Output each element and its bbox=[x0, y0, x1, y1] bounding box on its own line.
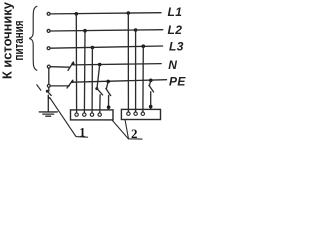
terminal circle L3 bbox=[47, 47, 50, 50]
node PE/box1 drop bbox=[106, 80, 110, 84]
svg-text:1: 1 bbox=[79, 126, 85, 140]
wire L1 drop to box1 bbox=[75, 14, 77, 113]
wire bus L3 bbox=[51, 46, 163, 48]
wire L1 drop to box2 bbox=[127, 13, 129, 112]
hinge node of N-drop blade bbox=[95, 87, 98, 90]
wire PEN-PE vertical link bbox=[48, 69, 50, 84]
wire PE drop to box2 (upper) bbox=[149, 80, 151, 86]
leader line 2a from box1 bbox=[112, 120, 142, 139]
terminal circle PEN bbox=[47, 65, 50, 68]
terminal in box2 t2 bbox=[134, 112, 137, 115]
svg-text:питания: питания bbox=[11, 21, 26, 61]
wire L3 drop to box1 bbox=[91, 48, 93, 113]
equipment box 1 (load enclosure) bbox=[71, 110, 114, 120]
brace grouping incoming supply wires bbox=[29, 6, 37, 70]
node L1/box1 drop bbox=[75, 12, 79, 16]
svg-text:L2: L2 bbox=[168, 23, 183, 37]
terminal circle L1 bbox=[47, 12, 50, 15]
switch blade on N conductor bbox=[68, 62, 74, 71]
node L3/box2 drop bbox=[142, 44, 146, 48]
wire N drop to box1 (upper) bbox=[97, 65, 100, 89]
node PE at box1 enclosure bbox=[107, 105, 111, 109]
wire L2 drop to box2 bbox=[135, 30, 137, 112]
node PE/box2 drop bbox=[149, 79, 153, 83]
node N/box1 drop bbox=[98, 63, 102, 67]
leader line 2b from box2 bbox=[125, 120, 129, 139]
terminal in box1 t3 bbox=[90, 113, 93, 116]
switch blade on earthing conductor bbox=[47, 91, 52, 96]
arrowhead of leader 1 bbox=[47, 96, 51, 100]
terminal in box2 t3 bbox=[141, 112, 144, 115]
wire bus PE bbox=[73, 80, 167, 83]
node L3/box1 drop bbox=[91, 46, 95, 50]
terminal in box1 t1 bbox=[75, 113, 78, 116]
svg-text:L3: L3 bbox=[169, 40, 184, 54]
hinge node of N blade bbox=[72, 62, 75, 65]
wire PE drop to box2 (lower) bbox=[150, 92, 152, 110]
node L1/box2 drop bbox=[127, 11, 131, 15]
ground electrode bar 1 bbox=[39, 111, 57, 113]
wire bus L1 bbox=[51, 13, 161, 14]
wire PE drop to box1 (lower) bbox=[108, 95, 110, 110]
terminal in box1 t4 bbox=[98, 113, 101, 116]
stray stroke near PE tap bbox=[37, 85, 41, 90]
terminal in box1 t2 bbox=[83, 113, 86, 116]
wire earthing conductor (lower) bbox=[47, 95, 49, 112]
wire PE stub bbox=[51, 85, 70, 87]
wire bus N bbox=[73, 64, 161, 65]
svg-text:N: N bbox=[168, 58, 177, 72]
switch blade on PE drop to box1 bbox=[106, 88, 111, 95]
leader line to label 1 (earthing electrode) bbox=[50, 98, 88, 138]
node PE at box2 enclosure bbox=[149, 105, 153, 109]
switch blade on PE conductor bbox=[67, 80, 73, 88]
wire PEN stub bbox=[51, 66, 70, 69]
switch blade on PE drop to box2 bbox=[149, 85, 154, 92]
terminal circle L2 bbox=[47, 29, 50, 32]
node L2/box1 drop bbox=[83, 29, 87, 33]
node L2/box2 drop bbox=[134, 28, 138, 32]
wire earthing conductor (upper) bbox=[48, 88, 50, 91]
wire PE drop to box1 (upper) bbox=[106, 81, 108, 89]
hinge node of earthing blade bbox=[46, 90, 49, 93]
svg-text:PE: PE bbox=[169, 75, 186, 89]
equipment box 2 (load enclosure) bbox=[121, 109, 160, 119]
svg-text:L1: L1 bbox=[168, 5, 183, 19]
ground electrode bar 2 bbox=[43, 113, 54, 115]
wire L3 drop to box2 bbox=[142, 46, 144, 111]
svg-text:2: 2 bbox=[131, 126, 138, 141]
wire N drop to box1 (lower) bbox=[99, 95, 101, 113]
ground electrode bar 3 bbox=[46, 115, 51, 117]
terminal in box2 t1 bbox=[127, 112, 130, 115]
wire bus L2 bbox=[51, 30, 163, 31]
label: source text "К источнику питания" (rotated) bbox=[0, 1, 26, 79]
wire L2 drop to box1 bbox=[83, 31, 86, 113]
switch blade on N drop bbox=[97, 88, 103, 95]
terminal circle PE tap bbox=[47, 84, 50, 87]
